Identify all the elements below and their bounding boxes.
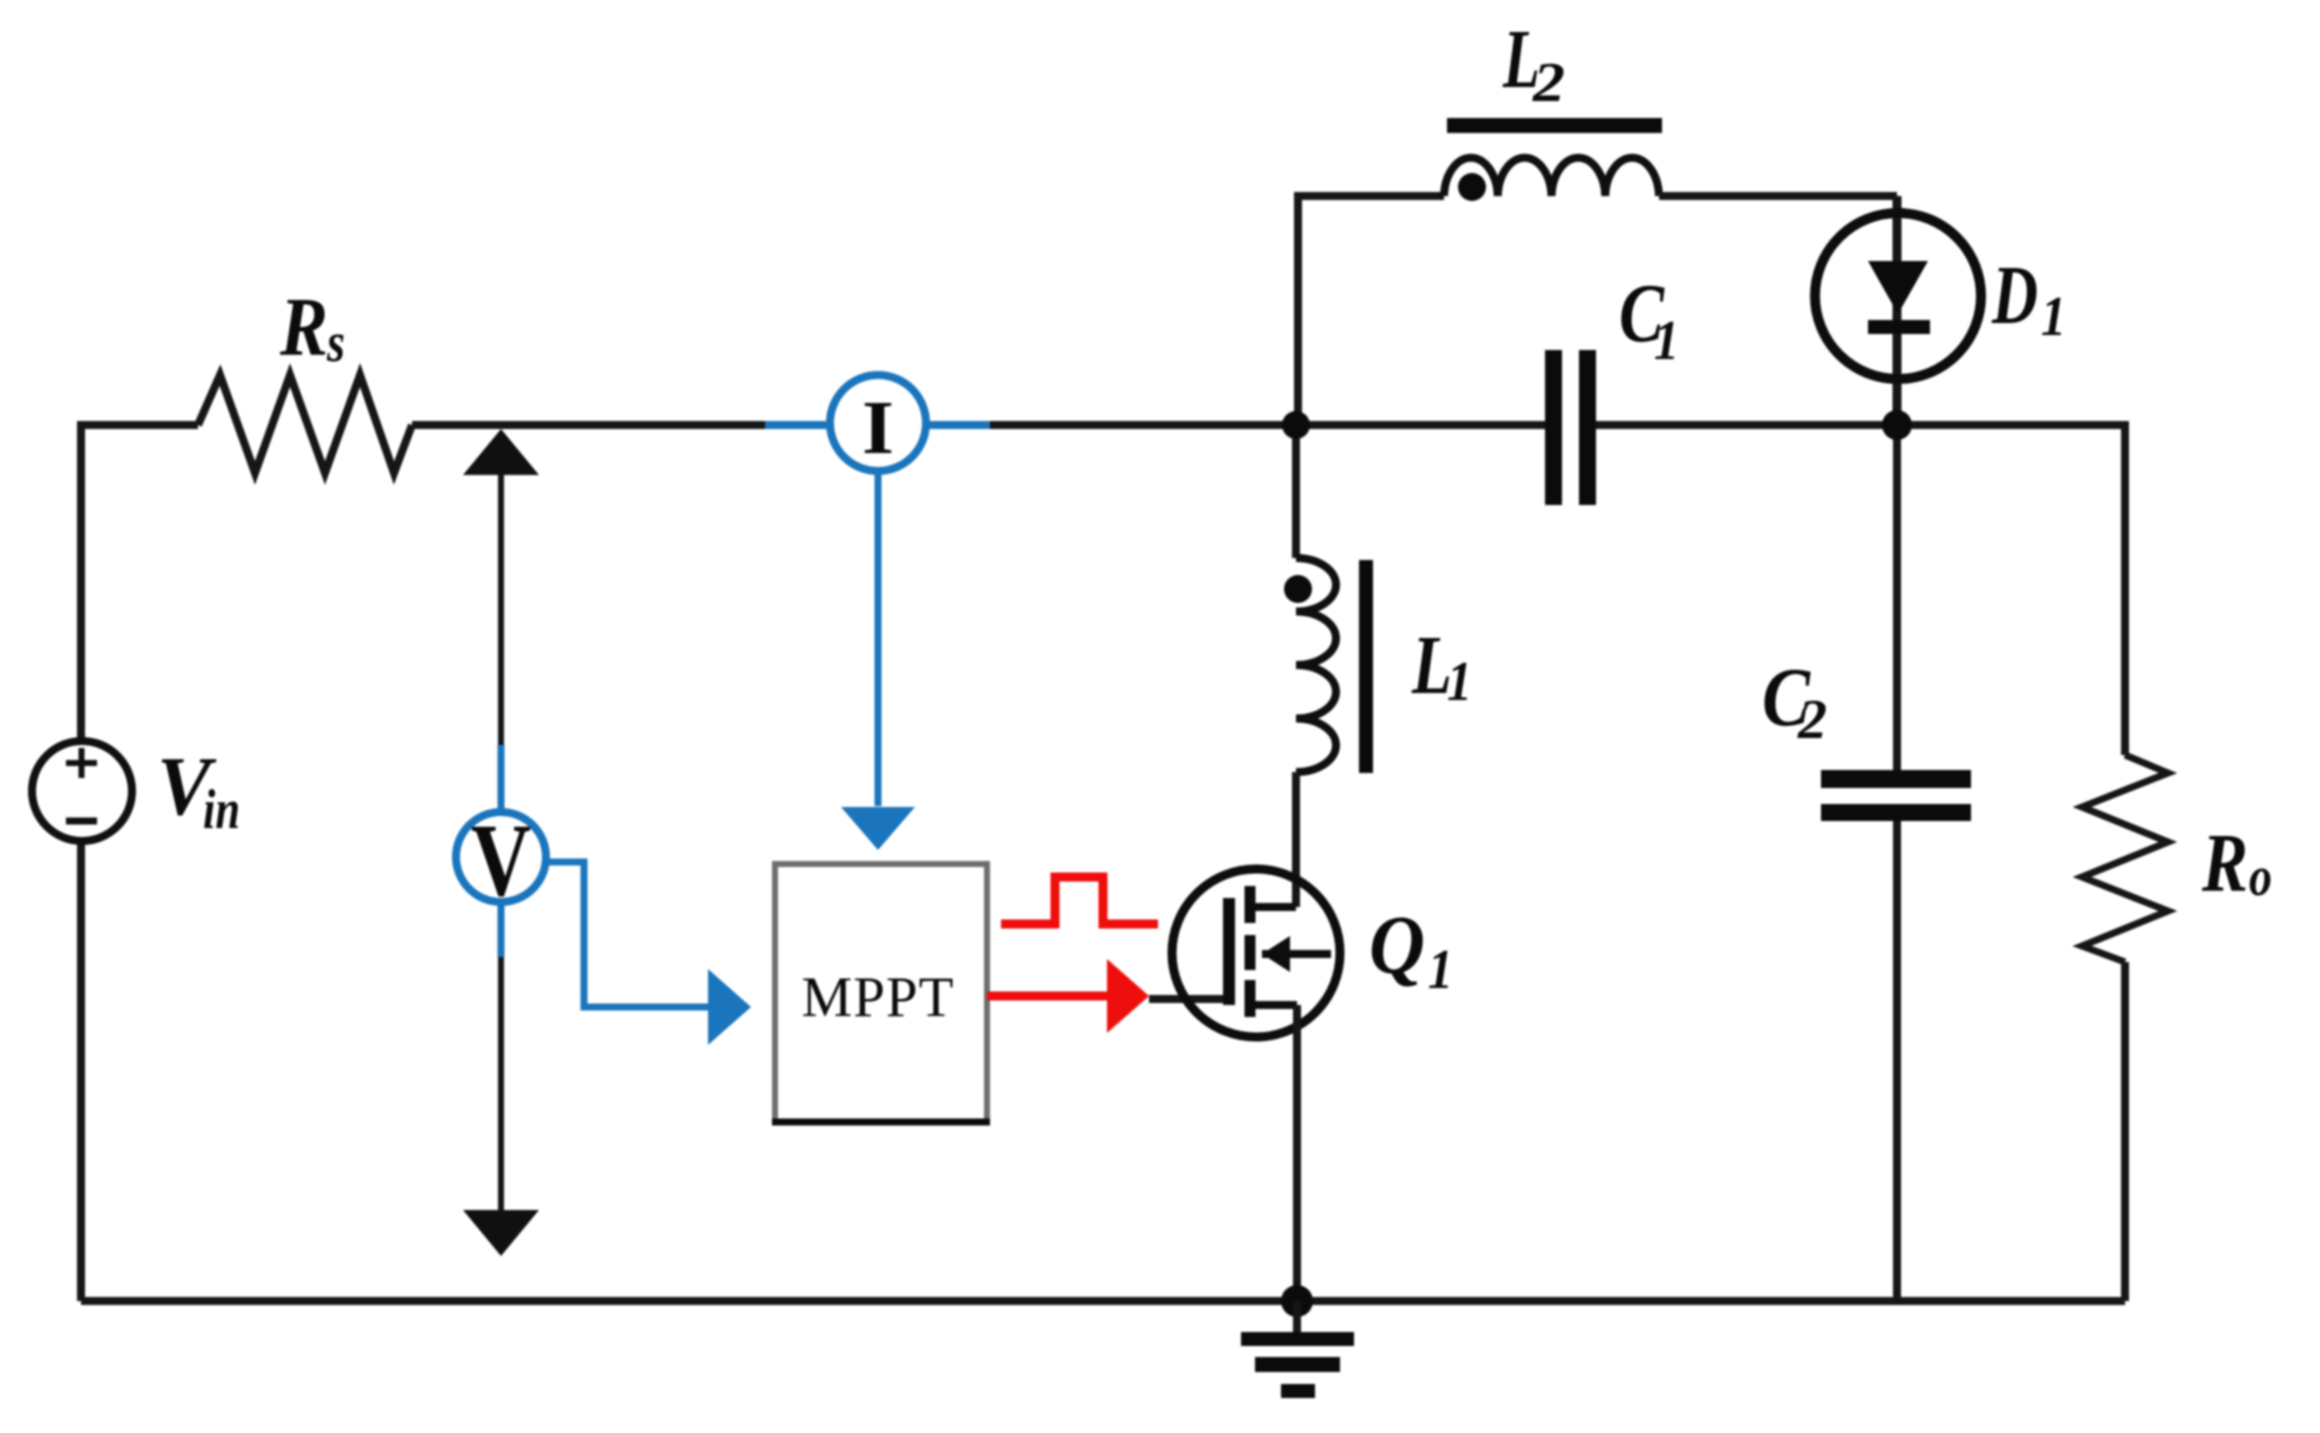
red arrow head to gate — [1107, 959, 1149, 1033]
Q1 channel segment top — [1245, 886, 1256, 923]
inductor L2 coil — [1444, 158, 1659, 196]
Vin minus sign — [66, 818, 97, 825]
wire Q1 source down to bottom rail — [1293, 1005, 1301, 1301]
svg-text:R: R — [279, 281, 328, 374]
Vin plus sign — [66, 748, 97, 778]
blue wire from V sensor to MPPT — [546, 862, 708, 1007]
wire top middle — [412, 421, 1545, 429]
node top junction D1 C2 — [1882, 410, 1912, 440]
capacitor C1 left plate — [1545, 350, 1562, 505]
blue overlay above V sensor — [498, 745, 505, 812]
svg-text:1: 1 — [1447, 651, 1472, 713]
ground bar 3 — [1281, 1384, 1315, 1398]
wire node to C2 top — [1893, 425, 1901, 770]
blue wire overlay on top rail at I sensor — [765, 421, 990, 429]
svg-text:MPPT: MPPT — [802, 966, 955, 1029]
diode D1 circle — [1815, 213, 1981, 379]
Q1 channel segment middle — [1245, 935, 1256, 970]
svg-text:in: in — [203, 779, 240, 841]
wire L2 branch up from node — [1294, 196, 1302, 425]
ground bar 2 — [1255, 1357, 1340, 1372]
blue arrow head into MPPT — [841, 807, 915, 850]
inductor L1 polarity dot — [1284, 575, 1312, 603]
transistor Q1 circle — [1172, 869, 1340, 1037]
wire bottom rail — [81, 1297, 2125, 1305]
wire L1 to MOSFET drain — [1292, 772, 1300, 907]
capacitor C1 right plate — [1579, 350, 1596, 505]
black arrow head down — [463, 1210, 539, 1256]
inductor L1 coil — [1296, 558, 1336, 772]
svg-text:o: o — [2249, 846, 2272, 908]
red gate pulse waveform — [1001, 877, 1158, 924]
wire right side down to Ro — [2121, 421, 2129, 755]
svg-text:2: 2 — [1797, 689, 1827, 751]
voltage sensor V circle — [456, 812, 546, 902]
blue overlay below V sensor — [498, 902, 505, 957]
Q1 channel segment bottom — [1245, 980, 1256, 1017]
svg-text:V: V — [471, 803, 531, 918]
wire L1 branch from node — [1292, 425, 1300, 558]
svg-text:1: 1 — [1654, 310, 1679, 372]
svg-text:1: 1 — [2041, 286, 2066, 348]
wire top right of C1 — [1596, 421, 2125, 429]
ground bar 1 — [1241, 1332, 1354, 1346]
Q1 gate bar — [1223, 898, 1235, 1005]
blue wire from I sensor down — [875, 471, 882, 806]
svg-text:D: D — [1991, 249, 2038, 342]
svg-text:s: s — [326, 312, 345, 374]
svg-text:R: R — [2201, 817, 2248, 910]
svg-text:1: 1 — [1428, 939, 1453, 1001]
inductor L2 core bar — [1447, 118, 1662, 133]
capacitor C2 top plate — [1821, 770, 1971, 788]
svg-text:L: L — [1411, 619, 1452, 712]
blue arrow head right into MPPT — [708, 969, 751, 1045]
node bottom junction ground — [1281, 1285, 1313, 1317]
diode D1 triangle — [1868, 261, 1928, 314]
MPPT box — [775, 864, 987, 1122]
wire left side upper — [77, 421, 85, 741]
wire L2 right horizontal to D1 — [1659, 192, 1897, 200]
red wire MPPT to gate — [987, 992, 1107, 1001]
wire top-left horizontal — [81, 421, 198, 429]
ground stub — [1293, 1301, 1301, 1332]
Q1 body stub — [1262, 950, 1331, 958]
inductor L2 polarity dot — [1458, 173, 1486, 201]
svg-text:2: 2 — [1532, 52, 1565, 114]
wire gate lead — [1149, 995, 1229, 1003]
capacitor C2 bottom plate — [1821, 804, 1971, 821]
wire L2 left horizontal — [1294, 192, 1444, 200]
voltage source Vin circle — [32, 741, 132, 841]
Q1 source stub — [1250, 1001, 1297, 1009]
wire Ro bottom to bottom rail — [2121, 962, 2129, 1301]
MPPT box bottom black edge — [772, 1119, 990, 1126]
Q1 drain stub — [1250, 903, 1296, 911]
Q1 body arrow head — [1262, 936, 1290, 972]
inductor L1 core bar — [1359, 560, 1373, 773]
wire left side lower — [77, 842, 85, 1301]
current sensor I circle — [830, 375, 926, 471]
svg-text:Q: Q — [1369, 899, 1425, 992]
node top junction L1 L2 — [1282, 411, 1310, 439]
wire D1 vertical — [1893, 196, 1902, 425]
diode D1 cathode bar — [1868, 320, 1930, 334]
black arrow head up — [463, 429, 539, 475]
svg-text:I: I — [862, 386, 894, 470]
wire C2 bottom to bottom rail — [1893, 821, 1901, 1301]
resistor Rs — [198, 375, 412, 473]
black measurement double arrow shaft — [498, 460, 504, 1220]
resistor Ro — [2082, 755, 2168, 962]
